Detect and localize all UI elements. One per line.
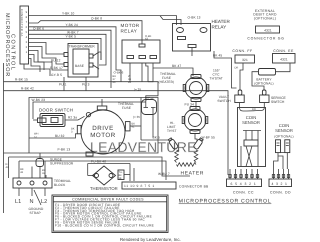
wire W-BK 23 loop (32, 98, 146, 119)
svg-text:MICROPROCESSOR CONTROL: MICROPROCESSOR CONTROL (179, 199, 272, 205)
connector DD (269, 179, 292, 195)
svg-text:N: N (30, 199, 34, 205)
svg-text:F10 - BLOCKED CO N 2 OR CONTRO: F10 - BLOCKED CO N 2 OR CONTROL CIRCUIT … (55, 224, 154, 228)
wire motor right (130, 98, 141, 127)
door switch (33, 107, 91, 126)
svg-text:Y-BK 5: Y-BK 5 (66, 35, 77, 39)
svg-text:BK 47: BK 47 (172, 64, 181, 68)
svg-text:SENSOR: SENSOR (242, 120, 260, 125)
svg-text:Y-BK 10: Y-BK 10 (62, 12, 75, 16)
connector CC (227, 179, 262, 195)
service switch S2 (260, 90, 287, 104)
svg-text:TH-: TH- (119, 171, 123, 174)
svg-text:BK 45: BK 45 (213, 54, 222, 58)
wire Y-BK 24 (29, 23, 117, 48)
svg-text:4321: 4321 (264, 28, 272, 32)
svg-text:(OPTIONAL): (OPTIONAL) (274, 135, 293, 139)
svg-text:CONN. CC: CONN. CC (233, 191, 254, 195)
svg-text:TRANSFORMER: TRANSFORMER (69, 44, 96, 48)
svg-text:(OPTIONAL): (OPTIONAL) (254, 16, 276, 20)
wire R-BK 42 (4, 87, 229, 175)
wire left bus vertical (3, 63, 5, 213)
connector 2A (20, 6, 29, 64)
svg-text:DOOR SWITCH: DOOR SWITCH (39, 107, 73, 112)
svg-text:PU-BK 48: PU-BK 48 (91, 160, 106, 164)
svg-text:CONNECTOR 2A: CONNECTOR 2A (20, 9, 23, 37)
battery (optional) (252, 63, 290, 90)
wire mid loop to fuse (146, 82, 158, 105)
svg-text:TH'ST: TH'ST (167, 129, 177, 133)
coin sensor box (238, 103, 266, 167)
microprocessor control left vertical label (4, 13, 16, 77)
svg-text:DRIVE: DRIVE (92, 125, 113, 132)
wire connector bottom drop (24, 64, 62, 77)
svg-text:11 10 9 8 7 5 1: 11 10 9 8 7 5 1 (124, 184, 155, 188)
left stacked wire labels (6, 157, 47, 178)
svg-text:O-BK 6: O-BK 6 (33, 26, 44, 30)
thermal fuse (heater) label (159, 72, 177, 84)
svg-text:MOTOR: MOTOR (90, 132, 115, 139)
wire Y-BK 10 (29, 12, 182, 25)
wire O-BK 6 (29, 26, 112, 52)
svg-text:BASE: BASE (75, 64, 84, 68)
svg-text:O-BK 8: O-BK 8 (91, 17, 102, 21)
svg-text:W-BF 55: W-BF 55 (202, 136, 215, 140)
svg-text:CONN. FF: CONN. FF (232, 49, 252, 53)
svg-text:R-BK 42: R-BK 42 (21, 87, 34, 91)
svg-text:RELAY: RELAY (121, 29, 138, 34)
svg-text:3B: 3B (119, 177, 122, 180)
wire labels mid (113, 71, 142, 120)
svg-text:BLOCK: BLOCK (54, 183, 66, 187)
vault switch S1 (217, 90, 244, 103)
motor relay K1 (121, 23, 161, 63)
svg-text:CONTROL: CONTROL (10, 34, 16, 71)
surge suppressor (36, 153, 74, 178)
belt switch diamond (88, 160, 130, 186)
svg-text:CONNECTOR BB: CONNECTOR BB (179, 184, 209, 188)
thermistor sensor (118, 164, 134, 182)
svg-text:R-BK 15: R-BK 15 (15, 78, 28, 82)
svg-text:O-BK 13: O-BK 13 (188, 16, 201, 20)
connector EE (273, 49, 296, 63)
svg-text:STRAP: STRAP (30, 211, 41, 215)
svg-text:W-BK 23: W-BK 23 (32, 98, 46, 102)
svg-text:Rendered by LeadVenture, Inc.: Rendered by LeadVenture, Inc. (120, 237, 181, 242)
svg-text:HEATER: HEATER (212, 19, 231, 24)
terminal block (13, 161, 71, 188)
wire BU 32 (29, 134, 77, 138)
svg-text:BK 5: BK 5 (153, 136, 160, 140)
svg-text:MICROPROCESSOR: MICROPROCESSOR (4, 13, 10, 77)
svg-text:COMMERCIAL DRYER FAULT CODES: COMMERCIAL DRYER FAULT CODES (72, 197, 144, 201)
svg-text:FUSE: FUSE (122, 106, 131, 110)
svg-text:L1: L1 (15, 199, 21, 205)
heater element (141, 126, 204, 177)
svg-text:SUPPRESSOR: SUPPRESSOR (50, 162, 74, 166)
coin sensor pins to conn CC (229, 169, 259, 179)
hi-limit thermostat (167, 102, 215, 140)
wire transformer right drops (99, 48, 121, 88)
heater relay K2 (173, 16, 237, 88)
svg-text:O-BK 6: O-BK 6 (114, 71, 124, 75)
svg-text:THERMISTOR: THERMISTOR (90, 186, 118, 191)
svg-text:MOTOR: MOTOR (121, 23, 140, 28)
svg-text:321: 321 (242, 58, 248, 62)
svg-text:R-BK 17: R-BK 17 (50, 66, 63, 70)
svg-text:L2: L2 (41, 199, 47, 205)
wire to transformer left pins (29, 43, 69, 71)
svg-text:GY-R 5: GY-R 5 (51, 73, 62, 77)
svg-text:(HEATER): (HEATER) (159, 80, 175, 84)
coin sensor optional pins to conn DD (272, 169, 289, 179)
wire Y-BK 5 (29, 35, 102, 60)
wire connector stubs (29, 55, 45, 73)
wire O-BK 8 (29, 17, 143, 44)
svg-text:BU 32: BU 32 (55, 134, 65, 138)
svg-text:P-BK 13: P-BK 13 (58, 148, 71, 152)
wire W-BK 7 (29, 31, 107, 57)
svg-text:BU 12: BU 12 (51, 59, 61, 63)
svg-text:Y-BK 24: Y-BK 24 (66, 23, 79, 27)
wire R-BK 15 (4, 68, 154, 82)
drive motor M1 (71, 99, 135, 156)
L1 N L2 leads (15, 188, 47, 215)
thermistor label and connector BB (90, 182, 209, 191)
svg-text:BK: BK (119, 174, 123, 177)
svg-text:DR: DR (252, 108, 256, 111)
svg-text:SWITCH: SWITCH (217, 99, 231, 103)
svg-text:(= 35: (= 35 (133, 115, 140, 119)
wire motor relay drops (130, 63, 193, 82)
thermal fuse (dryer) (118, 100, 157, 138)
transformer T1 (59, 44, 99, 91)
external debit card connector GG (247, 9, 284, 40)
svg-text:CONN. DD: CONN. DD (270, 191, 291, 195)
svg-text:654321: 654321 (230, 182, 258, 186)
svg-text:CONN. EE: CONN. EE (273, 49, 294, 53)
big wire loop around motor (4, 98, 191, 181)
svg-text:4321: 4321 (280, 57, 288, 61)
legend fault codes box (52, 195, 168, 233)
microprocessor control footer label (179, 199, 272, 205)
svg-text:DR: DR (235, 67, 239, 70)
svg-text:PU 1: PU 1 (59, 83, 67, 87)
svg-text:SENSOR: SENSOR (275, 128, 293, 133)
svg-text:CONNECTOR GG: CONNECTOR GG (247, 36, 284, 40)
svg-text:RELAY: RELAY (212, 25, 227, 30)
svg-text:W-BU 7: W-BU 7 (158, 172, 170, 176)
svg-text:(OPTIONAL): (OPTIONAL) (254, 82, 273, 86)
svg-text:SWITCH: SWITCH (271, 100, 285, 104)
coin sensor (optional) (274, 123, 294, 169)
cycling thermostat 155 (183, 69, 223, 107)
svg-text:TH'STAT: TH'STAT (210, 77, 223, 81)
svg-text:PU 34: PU 34 (185, 103, 195, 107)
svg-text:R2 3a: R2 3a (68, 116, 77, 120)
connector FF (232, 49, 254, 90)
svg-text:(= 29: (= 29 (134, 88, 141, 92)
svg-text:4321: 4321 (272, 182, 290, 186)
